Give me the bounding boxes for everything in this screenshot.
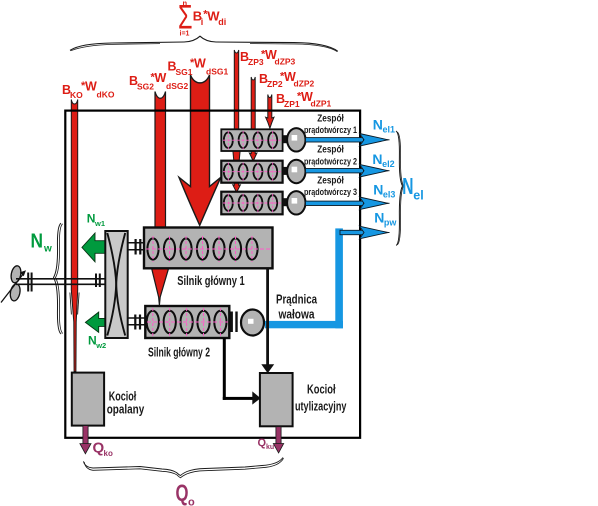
arrow B_ZP3 (to genset 3) [233,50,241,192]
gearbox [105,231,127,338]
label Q_o [176,480,196,506]
svg-text:Silnik główny 2: Silnik główny 2 [148,345,210,360]
svg-text:dKO: dKO [97,90,115,100]
blue labels [372,117,397,228]
label B_ZP3*W_dZP3 [240,48,296,67]
svg-text:W: W [85,80,97,94]
arrow B_KO (red band to fired boiler) [71,100,77,372]
blue arrow N_el2 [306,164,390,177]
label B_ZP2*W_dZP2 [259,70,315,89]
label Q_ku [258,437,275,451]
svg-text:dZP3: dZP3 [275,57,296,67]
svg-text:Kocioł: Kocioł [307,382,336,396]
label N_w1 [87,212,105,229]
main engine 1 [144,228,273,269]
arrow B_ZP1 (to genset 1) [266,95,274,129]
svg-text:pw: pw [384,218,397,228]
arrow B_ZP2 (to genset 2) [249,77,257,161]
svg-text:dZP2: dZP2 [294,79,315,89]
arrow N_w2 (green, to the left) [85,312,105,332]
purple arrow Q_ku [273,427,283,453]
svg-text:wałowa: wałowa [278,308,316,322]
exhaust line engine2 to waste boiler [223,338,261,405]
svg-text:utylizacyjny: utylizacyjny [295,400,347,414]
blue arrow N_pw [340,226,390,239]
svg-text:Silnik główny 1: Silnik główny 1 [177,273,245,288]
blue arrow N_el3 [306,197,390,210]
genset labels [304,113,358,198]
svg-text:N: N [373,181,383,197]
svg-text:Zespół: Zespół [317,145,344,156]
brace for N_el [396,131,403,246]
svg-text:w: w [43,244,52,255]
genset 3 engine block [221,191,305,214]
svg-text:N: N [402,173,413,199]
coupling engine 2 to shaft generator [231,312,238,333]
svg-text:Zespół: Zespół [317,175,344,186]
svg-text:opalany: opalany [107,402,145,416]
blue arrow N_el1 [306,134,390,147]
genset 2 engine block [221,160,305,183]
arrow B_SG1 (big red arrow to main engine 1) [179,75,221,225]
top curly brace [70,36,338,51]
label B_SG2*W_dSG2 [129,71,188,92]
sum formula sigma Bi*Wdi [178,0,226,38]
svg-text:el: el [413,189,423,203]
svg-text:N: N [373,117,383,133]
arrow B_SG2 (red band to main engine 2) [152,92,169,306]
propeller [1,265,26,303]
svg-text:N: N [372,151,382,167]
svg-text:prądotwórczy 3: prądotwórczy 3 [304,187,357,198]
shaft generator [241,310,264,336]
svg-text:prądotwórczy 2: prądotwórczy 2 [304,156,357,167]
coupling gearbox to engine 1 [128,239,145,255]
big label N_el [402,173,423,203]
svg-text:W: W [155,71,167,85]
label Pradnica walowa [276,293,318,322]
genset 1 engine block [221,128,305,151]
system boundary box [65,111,360,438]
svg-text:dZP1: dZP1 [311,99,332,109]
shaft coupling flanges [27,273,101,292]
label N_w [31,231,53,255]
svg-text:o: o [188,497,195,506]
svg-text:Prądnica: Prądnica [276,293,318,307]
svg-text:el2: el2 [382,159,395,169]
purple arrow Q_ko [80,426,91,454]
svg-text:prądotwórczy 1: prądotwórczy 1 [304,125,358,136]
propeller shaft (double line) [16,279,105,285]
coupling gearbox to engine 2 [128,315,146,330]
svg-text:w2: w2 [95,341,106,350]
svg-text:el3: el3 [383,189,396,199]
svg-text:el1: el1 [383,125,396,135]
label B_ZP1*W_dZP1 [276,90,332,109]
label B_KO*W_dKO [62,80,115,101]
label B_SG1*W_dSG1 [168,57,229,78]
svg-text:w1: w1 [94,219,105,228]
svg-text:ko: ko [104,449,113,458]
label Q_ko [93,440,113,459]
brace for N_w [54,223,62,334]
waste heat boiler (Kociol utylizacyjny) [260,373,293,426]
svg-text:Zespół: Zespół [317,113,344,124]
svg-text:Q: Q [176,480,189,506]
svg-text:di: di [218,17,226,27]
svg-text:N: N [374,210,384,226]
svg-text:dSG2: dSG2 [166,81,188,91]
svg-text:n: n [183,0,188,8]
arrow N_w1 (green, to the left) [82,233,105,262]
svg-text:ku: ku [266,444,274,451]
bottom curly brace [84,458,284,476]
fired boiler (Kociol opalany) [72,373,104,426]
blue L-line from shaft generator [265,228,343,328]
exhaust line engine1 to waste boiler [261,268,274,373]
label N_w2 [88,334,106,351]
main engine 2 [145,306,229,338]
svg-text:N: N [31,231,44,253]
svg-text:W: W [194,57,206,71]
svg-text:i=1: i=1 [180,31,190,38]
